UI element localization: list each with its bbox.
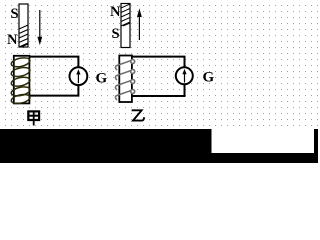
- black bar (large filled block bottom-left): [0, 129, 212, 163]
- arrow: magnet M2 moving up: [137, 8, 142, 40]
- wire: coil L2 top to galvanometer G2: [132, 57, 185, 67]
- coil L1 core (left solenoid frame): [14, 56, 30, 104]
- black column (right edge vertical band): [314, 129, 318, 163]
- label 乙 (right figure caption, drawn as strokes): [132, 110, 145, 120]
- magnet M2 body (bar magnet above right coil): [121, 4, 130, 48]
- galvanometer G1 (circle): [70, 67, 88, 85]
- coil L2 core (right solenoid frame): [119, 56, 132, 103]
- arrow: magnet M1 moving down: [37, 10, 42, 45]
- galvanometer G2 needle arrow: [182, 69, 186, 83]
- white panel (inset box bottom-right): [212, 129, 315, 153]
- svg-text:N: N: [110, 4, 121, 20]
- svg-text:G: G: [96, 70, 108, 86]
- svg-text:G: G: [203, 70, 215, 86]
- wire: galvanometer G1 bottom back to coil L1: [30, 86, 79, 96]
- wire: galvanometer G2 bottom back to coil L2: [132, 85, 185, 96]
- galvanometer G2 (circle): [176, 67, 193, 84]
- magnet M1 body (bar magnet above left coil): [19, 4, 28, 47]
- label 甲 (left figure caption, drawn as strokes): [28, 111, 39, 126]
- svg-text:N: N: [7, 32, 18, 48]
- svg-text:S: S: [112, 26, 120, 42]
- magnet M1 N-pole hatching: [19, 25, 28, 47]
- galvanometer G1 needle arrow: [76, 69, 80, 83]
- coil L2 windings (gray turns with loop ends): [115, 60, 134, 101]
- svg-text:S: S: [11, 6, 19, 22]
- wire: coil L1 top to galvanometer G1: [30, 57, 79, 67]
- coil L1 windings (olive coloured turns): [10, 56, 30, 105]
- black strip (bottom-right horizontal band): [210, 153, 318, 163]
- magnet M2 N-pole hatching: [121, 4, 130, 26]
